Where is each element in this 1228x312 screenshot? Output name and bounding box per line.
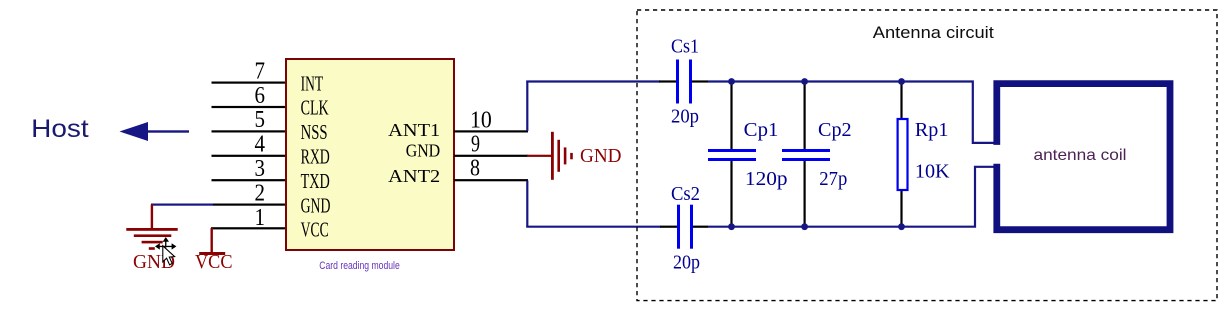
wire ANT1 riser (526, 82, 528, 132)
svg-text:Antenna circuit: Antenna circuit (873, 23, 994, 42)
wire arrow to Host on NSS line (120, 122, 190, 141)
wire pin7 INT (212, 82, 287, 84)
svg-text:NSS: NSS (301, 120, 328, 144)
resistor Rp1 (898, 119, 908, 190)
capacitor Cp2 (782, 149, 830, 161)
wire pin4 RXD (212, 155, 287, 157)
svg-text:Rp1: Rp1 (915, 119, 949, 141)
svg-text:INT: INT (301, 71, 324, 95)
wire bottom rail left of Cs2 (526, 226, 661, 228)
wire top rail left of Cs1 (526, 80, 660, 82)
svg-text:3: 3 (255, 156, 266, 182)
svg-text:20p: 20p (673, 252, 700, 274)
svg-text:9: 9 (471, 131, 480, 157)
svg-text:Cs1: Cs1 (671, 36, 699, 58)
junction dot top Rp1 (898, 78, 905, 85)
mouse cursor (155, 237, 176, 265)
svg-text:CLK: CLK (301, 96, 329, 120)
svg-text:ANT1: ANT1 (388, 120, 440, 140)
capacitor Cs2 (677, 205, 693, 249)
svg-text:Cs2: Cs2 (671, 183, 700, 205)
antenna circuit dashed boundary (637, 10, 1217, 301)
svg-text:20p: 20p (671, 105, 699, 127)
svg-text:GND: GND (580, 145, 622, 167)
wire pin9 GND (454, 155, 528, 157)
wire top rail Cs1 to coil corner (708, 82, 994, 143)
wire pin1 VCC (211, 227, 287, 229)
svg-text:VCC: VCC (301, 218, 329, 242)
capacitor Cp1 (708, 149, 756, 161)
junction dot bottom Rp1 (898, 223, 905, 230)
svg-text:TXD: TXD (301, 169, 330, 193)
svg-text:Host: Host (31, 115, 89, 143)
svg-text:VCC: VCC (195, 251, 233, 273)
svg-text:Card reading module: Card reading module (319, 260, 400, 272)
junction dot top Cp2 (801, 78, 808, 85)
wire Cs1 right stub (692, 80, 708, 82)
wire Rp1 bottom stub (900, 191, 902, 227)
svg-text:8: 8 (470, 156, 480, 182)
wire Cp2 top stub (804, 82, 806, 150)
component U1 card reading module body (286, 59, 454, 250)
wire pin5 NSS (212, 130, 287, 132)
wire Cs1 left stub (659, 80, 677, 82)
svg-text:6: 6 (255, 83, 266, 109)
wire pin8 ANT2 (454, 179, 528, 181)
wire Cp1 bottom stub (730, 161, 732, 227)
svg-text:Cp2: Cp2 (818, 119, 852, 141)
svg-text:RXD: RXD (301, 145, 330, 169)
svg-text:antenna coil: antenna coil (1034, 147, 1127, 164)
svg-text:10K: 10K (915, 161, 950, 183)
wire pin2 GND blue segment (151, 204, 213, 206)
junction dot top Cp1 (728, 78, 735, 85)
wire Cs2 right stub (693, 226, 708, 228)
svg-text:GND: GND (301, 193, 331, 217)
wire pin3 TXD (212, 179, 287, 181)
wire pin2 GND black segment (213, 204, 287, 206)
wire Cp2 bottom stub (804, 161, 806, 227)
svg-text:120p: 120p (745, 168, 788, 190)
wire ANT2 dropper (526, 181, 528, 227)
ground GND middle symbol (551, 132, 573, 180)
wire Rp1 top stub (900, 82, 902, 118)
wire Cs2 left stub (660, 226, 678, 228)
svg-text:GND: GND (406, 141, 441, 161)
svg-text:7: 7 (255, 58, 266, 84)
wire pin10 ANT1 (454, 130, 528, 132)
svg-text:5: 5 (255, 107, 266, 133)
wire bottom rail Cs2 to coil corner (708, 167, 994, 227)
wire Cp1 top stub (730, 82, 732, 150)
wire pin6 CLK (212, 106, 287, 108)
junction dot bottom Cp1 (728, 223, 735, 230)
svg-text:Cp1: Cp1 (744, 119, 779, 141)
junction dot bottom Cp2 (801, 223, 808, 230)
svg-text:27p: 27p (819, 168, 847, 190)
svg-text:1: 1 (255, 205, 266, 231)
power VCC symbol (199, 228, 225, 255)
svg-text:2: 2 (255, 180, 266, 206)
ground GND left symbol (126, 205, 177, 250)
wire GND red segment pin9 (527, 155, 552, 157)
svg-text:4: 4 (255, 132, 266, 158)
svg-text:10: 10 (470, 107, 492, 133)
antenna coil body (997, 84, 1170, 230)
capacitor Cs1 (676, 60, 692, 104)
svg-text:ANT2: ANT2 (388, 166, 440, 186)
